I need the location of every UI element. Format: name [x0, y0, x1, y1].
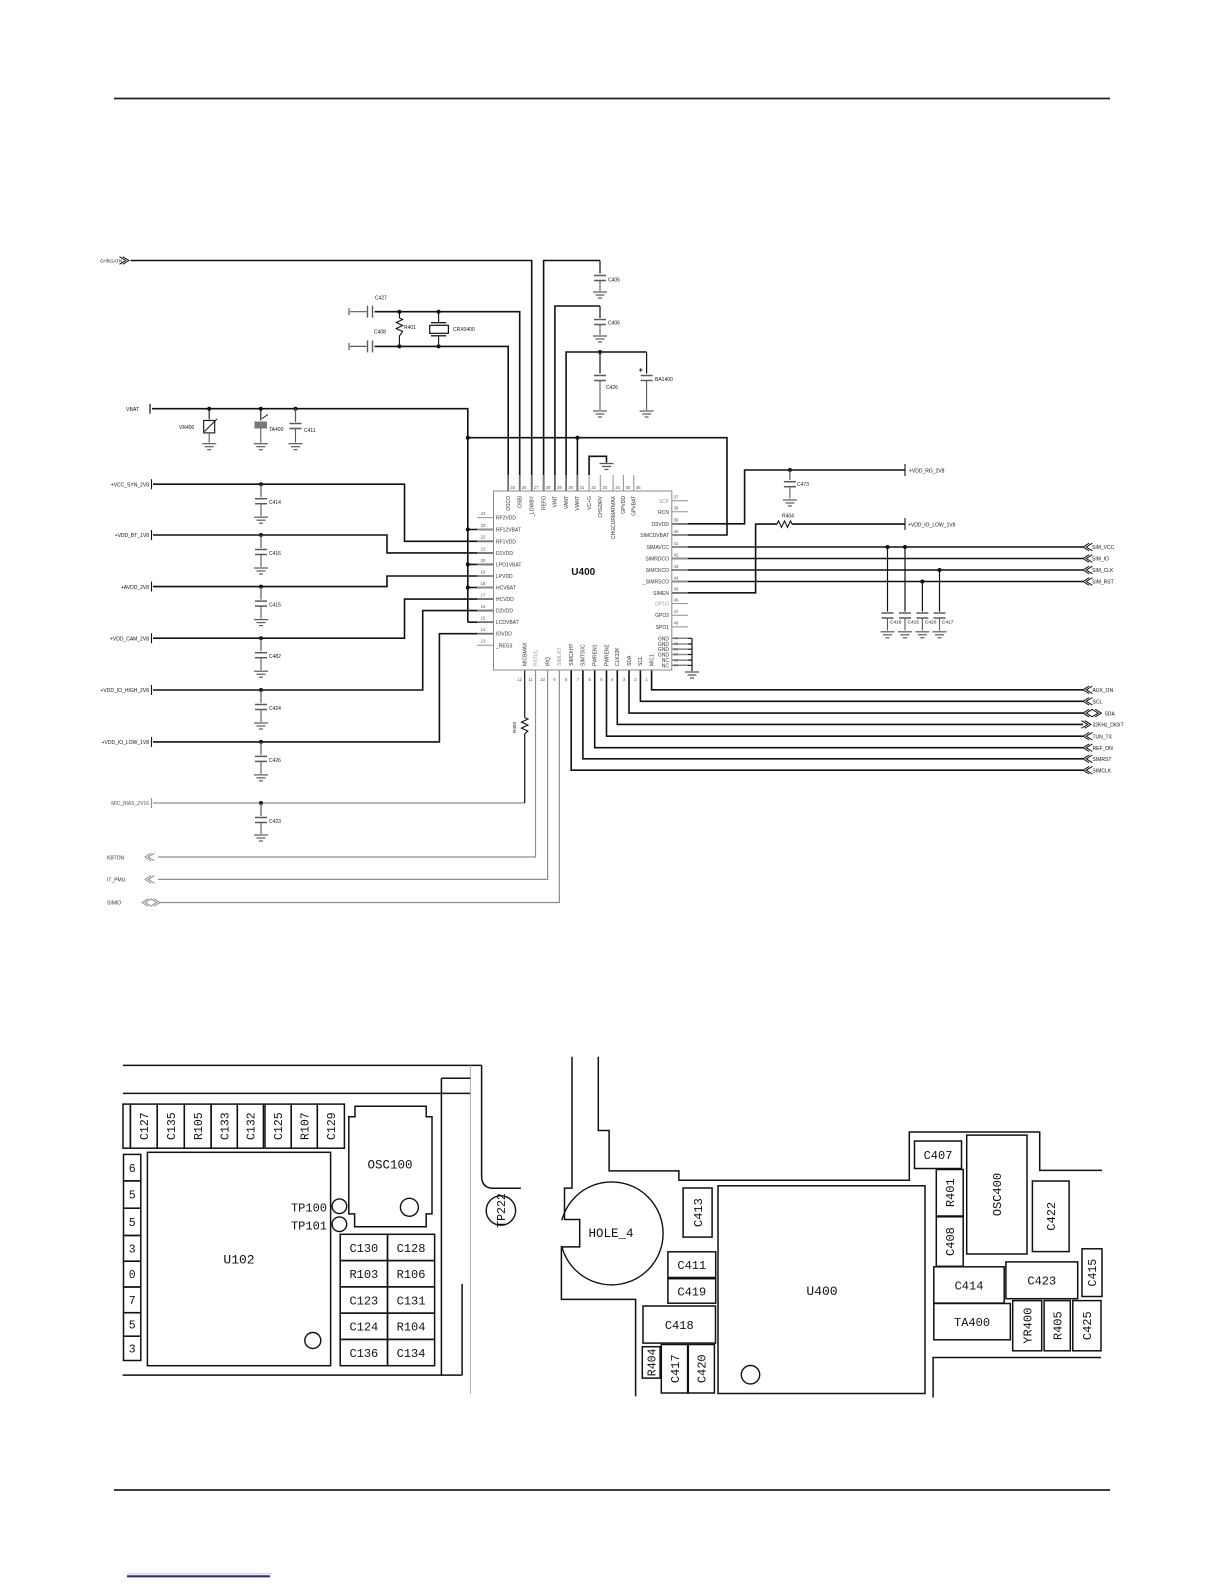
svg-text:C135: C135 [166, 1112, 179, 1140]
svg-text:26: 26 [522, 485, 527, 490]
node junction C482 [259, 636, 263, 640]
U400 pin 24 RF2VDD [477, 517, 494, 519]
svg-text:MIC1: MIC1 [649, 654, 655, 666]
PCB part TP222 [486, 1196, 515, 1225]
node SDA [1083, 709, 1089, 717]
PCB edge part 3 [124, 1336, 141, 1360]
svg-text:LPVDD: LPVDD [496, 574, 513, 580]
svg-text:SIMAVCC: SIMAVCC [647, 545, 670, 551]
ground (C415) [254, 619, 268, 621]
PCB part C136 [340, 1339, 387, 1365]
svg-text:REFO: REFO [541, 496, 547, 510]
U400 pin 37 SCP [672, 500, 688, 502]
svg-text:C130: C130 [349, 1242, 378, 1256]
svg-text:C133: C133 [219, 1112, 232, 1140]
svg-text:SIMCDVBAT: SIMCDVBAT [640, 533, 669, 539]
PCB part edge box [123, 1104, 130, 1148]
node junction C415 [903, 545, 907, 549]
PCB part C425 [1073, 1301, 1101, 1351]
svg-text:18: 18 [481, 581, 486, 586]
svg-text:27: 27 [534, 485, 539, 490]
svg-text:TA400: TA400 [269, 427, 284, 433]
capacitor C426 [260, 742, 262, 755]
node SIM_CLK [1083, 566, 1089, 574]
U400 pin 31 VIANT [576, 475, 578, 491]
PCB outline right layout bottom piece [933, 1358, 1101, 1398]
node SCL [1083, 698, 1089, 706]
svg-text:SIM_CLK: SIM_CLK [1092, 568, 1114, 574]
svg-text:+VDD_IO_LOW_1V8: +VDD_IO_LOW_1V8 [102, 740, 150, 746]
svg-text:GPO2: GPO2 [655, 613, 669, 619]
svg-text:SIM_IO: SIM_IO [1092, 557, 1109, 563]
svg-text:C128: C128 [397, 1242, 426, 1256]
svg-text:+VDD_RG_2V8: +VDD_RG_2V8 [909, 468, 945, 474]
PCB edge part 7 [124, 1287, 141, 1313]
node +VDD_RG_2V8 [904, 464, 906, 476]
svg-text:32KHz_DIGIT: 32KHz_DIGIT [1093, 723, 1124, 729]
svg-text:TP222: TP222 [496, 1193, 509, 1228]
svg-text:SIMRDCO: SIMRDCO [645, 557, 669, 563]
svg-text:R405: R405 [1052, 1311, 1066, 1340]
wire R404 to +VDD_IO_LOW_1V8 [792, 523, 905, 525]
wire +VDD_IO_LOW_1V8 rail [153, 634, 494, 742]
svg-text:KBTON: KBTON [107, 855, 125, 861]
svg-text:C406: C406 [608, 321, 620, 327]
battery BA1400 [646, 352, 648, 374]
PCB part R401 [936, 1170, 963, 1217]
svg-text:D2VDD: D2VDD [496, 609, 513, 615]
PCB edge part 5 [124, 1313, 141, 1337]
PCB part TA400 [934, 1304, 1011, 1340]
svg-text:28: 28 [546, 485, 551, 490]
wire U400 pin 44 to SIM_RST [672, 581, 1083, 583]
svg-text:49: 49 [674, 636, 678, 641]
PCB part R103 [340, 1261, 387, 1287]
svg-text:CHGCURMATMAX: CHGCURMATMAX [611, 495, 617, 539]
svg-text:TP101: TP101 [291, 1220, 327, 1234]
svg-text:15: 15 [481, 616, 486, 621]
svg-text:VIANT: VIANT [575, 496, 581, 511]
wire U400 pin 2 to SCL [640, 670, 1083, 701]
PCB part C133 [211, 1104, 237, 1148]
U400 pin 21 D1VDD [477, 552, 494, 554]
svg-text:+VDD_BT_1V8: +VDD_BT_1V8 [115, 533, 150, 539]
svg-text:SIMTSI/C: SIMTSI/C [581, 644, 587, 666]
svg-text:C125: C125 [273, 1112, 286, 1140]
svg-text:2: 2 [634, 677, 637, 682]
svg-text:HCVDD: HCVDD [496, 597, 514, 603]
U400 pin 54 NC [672, 664, 688, 666]
svg-text:OSC100: OSC100 [367, 1158, 412, 1172]
svg-text:C415: C415 [269, 603, 281, 609]
svg-text:5: 5 [129, 1217, 136, 1230]
svg-text:47: 47 [674, 609, 679, 614]
svg-text:C124: C124 [349, 1321, 378, 1335]
svg-text:SPO1: SPO1 [656, 625, 670, 631]
node junction C424 [259, 688, 263, 692]
node junction C417 [938, 568, 942, 572]
svg-text:PWREN1: PWREN1 [593, 644, 599, 666]
svg-text:C127: C127 [139, 1112, 152, 1140]
wire +VCC_SYN_2V8 rail [153, 484, 494, 541]
svg-text:4: 4 [611, 677, 614, 682]
svg-text:CLK32K: CLK32K [615, 647, 621, 666]
U400 pin 23 RF12VBAT [477, 529, 494, 531]
svg-text:RSTI/C: RSTI/C [533, 649, 539, 666]
svg-text:6: 6 [589, 677, 592, 682]
svg-text:VANT: VANT [564, 496, 570, 509]
svg-text:SIMEN: SIMEN [653, 591, 669, 597]
node junction pin23 [466, 528, 470, 532]
node junction C415 [259, 585, 263, 589]
svg-text:C134: C134 [397, 1347, 426, 1361]
svg-text:CHRGATN: CHRGATN [100, 258, 122, 263]
svg-text:10: 10 [540, 677, 545, 682]
PCB part C127 [130, 1104, 157, 1148]
node junction crystal top [437, 310, 441, 314]
PCB part U102 [147, 1152, 330, 1365]
svg-text:+VDD_CAM_2V8: +VDD_CAM_2V8 [110, 636, 149, 642]
svg-text:24: 24 [481, 511, 486, 516]
svg-text:TA400: TA400 [954, 1316, 990, 1330]
PCB part OSC100 [349, 1106, 432, 1226]
svg-text:SIMLI/O: SIMLI/O [557, 648, 563, 666]
svg-text:1: 1 [645, 677, 648, 682]
PCB part C128 [388, 1234, 435, 1260]
wire U400 pin 43 to SIM_CLK [672, 569, 1083, 571]
svg-text:48: 48 [674, 621, 679, 626]
capacitor C405 [594, 275, 606, 277]
PCB outline left layout bottom [123, 1374, 463, 1376]
svg-text:IOVDD: IOVDD [496, 632, 512, 638]
svg-text:C414: C414 [269, 500, 281, 506]
svg-text:DSVDD: DSVDD [651, 522, 669, 528]
svg-text:GPVBAT: GPVBAT [632, 496, 638, 516]
node junction C473 [788, 468, 792, 472]
svg-text:D1VDD: D1VDD [496, 551, 513, 557]
svg-text:C416: C416 [269, 551, 281, 557]
node SIMCLK [1083, 766, 1089, 774]
svg-text:_REG3: _REG3 [495, 643, 513, 649]
svg-text:+VDD_IO_LOW_1V8: +VDD_IO_LOW_1V8 [908, 522, 956, 528]
ground (C423) [254, 834, 268, 836]
PCB part OSC100 pad circle [400, 1198, 418, 1216]
link underline shadow [127, 1573, 271, 1575]
svg-text:39: 39 [674, 518, 679, 523]
svg-text:7: 7 [129, 1295, 136, 1308]
wire crystal bottom net to pin 25 [375, 346, 509, 491]
PCB part C414 [934, 1267, 1004, 1303]
svg-text:RF12VBAT: RF12VBAT [496, 528, 521, 534]
U400 pin 30 VANT [565, 475, 567, 491]
wire crystal top net to pin 26 [375, 312, 520, 491]
PCB part HOLE_4 [560, 1182, 663, 1285]
svg-text:AUX_ON: AUX_ON [1093, 688, 1114, 694]
ground (TA400) [254, 443, 268, 445]
svg-text:C418: C418 [665, 1319, 694, 1333]
svg-text:U102: U102 [223, 1253, 254, 1268]
PCB part C134 [388, 1339, 435, 1365]
PCB part C418 [643, 1306, 716, 1343]
op-amp U400 IC body [494, 491, 672, 670]
svg-text:C415: C415 [908, 620, 920, 626]
svg-text:3: 3 [129, 1243, 136, 1256]
ground (C405) [593, 291, 607, 293]
capacitor C414 [260, 484, 262, 497]
PCB part C407 [915, 1141, 962, 1169]
capacitor C417 [939, 570, 941, 612]
svg-text:C422: C422 [1045, 1202, 1059, 1231]
svg-text:38: 38 [674, 506, 679, 511]
PCB edge part 6 [124, 1154, 141, 1181]
U400 pin 14 IOVDD [477, 633, 494, 635]
ground (C420) [915, 631, 929, 633]
node junction C420 [920, 580, 924, 584]
svg-text:CHGDRV: CHGDRV [598, 495, 604, 517]
svg-text:MICBMAX: MICBMAX [523, 642, 529, 666]
svg-text:CRX0400: CRX0400 [453, 327, 475, 333]
crystal CRX0400 [438, 312, 440, 323]
svg-text:9: 9 [553, 677, 556, 682]
svg-text:51: 51 [674, 646, 678, 651]
svg-text:R106: R106 [397, 1268, 426, 1282]
PCB part C419 [668, 1279, 716, 1304]
wire VBAT to pin 31 [576, 438, 578, 491]
PCB part R405 [1044, 1301, 1070, 1351]
U400 pin 51 GND [672, 648, 688, 650]
wire U400 pin 12 to MIC_BIAS [524, 670, 526, 718]
node TUN_TX [1083, 732, 1089, 740]
ground (C417) [933, 631, 947, 633]
U400 pin 34 CHGCURMATMAX [612, 475, 614, 491]
wire U400 pin 41 to SIM_VCC [672, 546, 1083, 548]
svg-text:C408: C408 [374, 330, 386, 336]
ground (C411) [289, 443, 303, 445]
resistor R404 [777, 521, 792, 527]
capacitor C426 [599, 352, 601, 374]
svg-text:43: 43 [674, 564, 679, 569]
svg-text:C419: C419 [677, 1285, 706, 1299]
svg-text:SCL: SCL [1093, 700, 1103, 706]
node junction pin18 [466, 586, 470, 590]
svg-text:29: 29 [557, 485, 562, 490]
PCB outline left layout top lines [123, 1064, 482, 1066]
capacitor C423 [260, 803, 262, 816]
node junction C423 [259, 801, 263, 805]
svg-text:C415: C415 [1087, 1259, 1100, 1287]
PCB part C125 [265, 1104, 291, 1148]
ground (C406) [593, 335, 607, 337]
U400 pin 40 SIMCDVBAT [672, 534, 688, 536]
svg-text:11: 11 [528, 677, 533, 682]
wire U400 pin 4 to 32KHz_DIGIT [617, 670, 1083, 724]
ground (pin 32) [600, 463, 614, 465]
svg-text:R403: R403 [512, 722, 517, 733]
U400 pin 18 HCVBAT [477, 587, 494, 589]
svg-text:R401: R401 [944, 1178, 958, 1207]
svg-text:VR400: VR400 [179, 425, 195, 431]
svg-text:52: 52 [674, 652, 678, 657]
resistor R403 [522, 718, 528, 734]
PCB edge part 0 [124, 1261, 141, 1287]
U400 pin 26 OSBI [519, 475, 521, 491]
svg-text:C473: C473 [797, 482, 809, 488]
PCB part R404 [642, 1347, 660, 1378]
svg-text:+VCC_SYN_2V8: +VCC_SYN_2V8 [111, 482, 149, 488]
U400 pin 43 SIMCKCO [672, 569, 688, 571]
svg-text:SIMCKCO: SIMCKCO [646, 568, 669, 574]
U400 pin 36 GPVBAT [633, 475, 635, 491]
PCB part C132 [237, 1104, 263, 1148]
PCB part R105 [184, 1104, 211, 1148]
wire U400 pin 42 to SIM_IO [672, 558, 1083, 560]
link underline [127, 1575, 270, 1577]
svg-text:VC+G: VC+G [587, 496, 593, 510]
capacitor C427 [348, 308, 350, 315]
node +VDD_IO_LOW_1V8 [904, 518, 906, 530]
PCB part U102 pin1 circle [305, 1333, 321, 1349]
svg-text:14: 14 [481, 627, 486, 632]
capacitor C482 [260, 638, 262, 651]
node SIM_IO [1083, 555, 1089, 563]
svg-text:C411: C411 [304, 428, 316, 434]
U400 pin 20 LPO1VBAT [477, 563, 494, 565]
svg-text:C132: C132 [245, 1112, 258, 1140]
suppressor TA400 [259, 407, 263, 411]
svg-text:LPO1VBAT: LPO1VBAT [496, 562, 521, 568]
U400 pin 52 GND [672, 654, 688, 656]
PCB part C131 [388, 1287, 435, 1313]
svg-text:NC: NC [662, 663, 670, 669]
U400 pin 33 CHGDRV [599, 475, 601, 491]
PCB outline right layout left piece [561, 1057, 635, 1397]
PCB part C415 [1082, 1249, 1102, 1297]
svg-text:R103: R103 [349, 1268, 378, 1282]
svg-text:SIMCLK: SIMCLK [1093, 768, 1112, 774]
wire +VDD_BT_1V8 rail [153, 535, 494, 553]
svg-text:8: 8 [565, 677, 568, 682]
ground (C426) [254, 774, 268, 776]
U400 pin 28 REFO [543, 475, 545, 491]
svg-text:OSBI: OSBI [518, 496, 524, 508]
svg-text:MIC_BIAS_2V16: MIC_BIAS_2V16 [111, 801, 149, 807]
svg-text:46: 46 [674, 597, 679, 602]
svg-text:BA1400: BA1400 [655, 377, 673, 383]
capacitor C420 [921, 582, 923, 612]
svg-text:SIMCKHT: SIMCKHT [569, 644, 575, 667]
U400 pin 32 VC+G [588, 475, 590, 491]
svg-text:GPVDD: GPVDD [621, 496, 627, 514]
svg-text:SCP: SCP [659, 499, 670, 505]
wire U400 pin 32 to ground [589, 456, 606, 475]
svg-text:25: 25 [510, 485, 515, 490]
svg-text:GP1O: GP1O [655, 602, 669, 608]
wire +VDD_CAM_2V8 rail [153, 599, 494, 638]
svg-text:C123: C123 [349, 1294, 378, 1308]
node junction C416 [259, 533, 263, 537]
ground (VR400) [202, 443, 216, 445]
PCB part U400 pin1 circle [741, 1366, 759, 1384]
svg-text:C408: C408 [944, 1227, 958, 1256]
svg-text:VINT: VINT [553, 496, 559, 507]
svg-text:5: 5 [129, 1190, 136, 1203]
svg-text:SIMRST: SIMRST [1093, 757, 1112, 763]
U400 pin 15 LCDVBAT [477, 621, 494, 623]
resistor R401 [398, 312, 400, 318]
svg-text:HCVBAT: HCVBAT [496, 586, 516, 592]
ground (C414) [254, 516, 268, 518]
svg-text:RF2VDD: RF2VDD [496, 516, 516, 522]
ground (C424) [254, 722, 268, 724]
svg-text:C413: C413 [692, 1198, 706, 1227]
U400 pin 42 SIMRDCO [672, 558, 688, 560]
U400 pin 29 VINT [554, 475, 556, 491]
PCB part C413 [683, 1188, 712, 1237]
svg-text:44: 44 [674, 575, 679, 580]
svg-text:C417: C417 [669, 1354, 683, 1383]
svg-text:OSC400: OSC400 [991, 1173, 1005, 1216]
svg-text:33: 33 [602, 485, 607, 490]
svg-text:R107: R107 [299, 1112, 312, 1140]
svg-text:_LOWBY: _LOWBY [530, 495, 536, 518]
wire U400 pin 8 to SIMCLK [571, 670, 1083, 770]
svg-text:IT_PMU: IT_PMU [107, 878, 126, 884]
svg-text:7: 7 [577, 677, 580, 682]
U400 pin 46 GP1O [672, 603, 688, 605]
PCB part R107 [291, 1104, 317, 1148]
ground (BA1400) [640, 410, 654, 412]
svg-text:C129: C129 [326, 1112, 339, 1140]
svg-text:+AVDD_2V8: +AVDD_2V8 [121, 585, 149, 591]
U400 pin 41 SIMAVCC [672, 546, 688, 548]
wire VBAT to pin 40 [468, 438, 727, 535]
PCB outline left layout inner verticals [469, 1065, 471, 1394]
ground (C473) [783, 499, 797, 501]
svg-text:C416: C416 [890, 620, 902, 626]
capacitor C415 [904, 547, 906, 612]
wire U400 pin 7 to SIMRST [583, 670, 1083, 759]
svg-text:C405: C405 [608, 278, 620, 284]
wire +AVDD_2V8 rail [153, 576, 494, 587]
svg-text:C426: C426 [606, 385, 618, 391]
svg-text:C482: C482 [269, 654, 281, 660]
PCB part C420 [688, 1345, 714, 1394]
svg-text:5: 5 [129, 1320, 136, 1333]
svg-text:41: 41 [674, 541, 679, 546]
svg-text:SCL: SCL [638, 656, 644, 666]
PCB part C129 [317, 1104, 344, 1148]
PCB part C411 [668, 1252, 716, 1278]
wire VBAT bus to pins 23 20 18 15 [467, 438, 469, 623]
svg-text:RCN: RCN [658, 510, 669, 516]
svg-text:34: 34 [615, 485, 620, 490]
svg-text:C420: C420 [925, 620, 937, 626]
PCB outline right layout top piece [598, 1057, 1102, 1181]
PCB edge part 3 [124, 1236, 141, 1262]
U400 pin 44 _SIMRSCO [672, 581, 688, 583]
svg-text:3: 3 [623, 677, 626, 682]
PCB part C124 [340, 1313, 387, 1339]
svg-text:42: 42 [674, 552, 679, 557]
ground (C416) [254, 567, 268, 569]
node junction C416 [886, 545, 890, 549]
svg-text:36: 36 [636, 485, 641, 490]
capacitor C411 [294, 407, 298, 411]
svg-text:12: 12 [517, 677, 522, 682]
ground (C415) [898, 631, 912, 633]
wire U400 pin 6 to REF_ON [595, 670, 1083, 748]
U400 pin 35 GPVDD [622, 475, 624, 491]
